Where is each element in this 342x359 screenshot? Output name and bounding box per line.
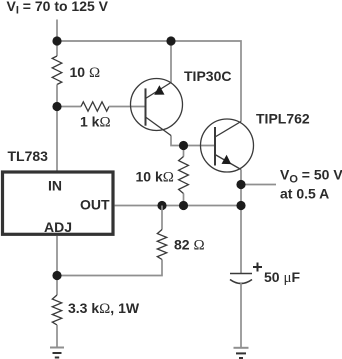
svg-text:TIP30C: TIP30C: [184, 68, 231, 84]
wire OUT rail: [115, 205, 242, 207]
label + polarity: [253, 263, 262, 272]
node dot ADJ junction: [52, 271, 61, 280]
capacitor C1 top plate: [230, 273, 252, 275]
wire 10k top lead: [183, 146, 185, 157]
node dot Q2 base junction: [179, 141, 188, 150]
svg-text:at 0.5 A: at 0.5 A: [280, 186, 329, 202]
node dot Q1 emitter rail junction: [166, 36, 175, 45]
transistor Q1 TIP30C: [131, 79, 183, 136]
wire ADJ pin down: [56, 236, 58, 295]
transistor Q2 TIPL762: [201, 119, 254, 172]
svg-text:TL783: TL783: [8, 148, 49, 164]
wire base branch left: [57, 106, 81, 108]
node dot 1k tap: [52, 102, 61, 111]
svg-text:10 kΩ: 10 kΩ: [136, 169, 174, 186]
ground right: [234, 348, 249, 358]
node dot input-rail junction: [52, 36, 61, 45]
wire Q1 emitter to rail: [170, 41, 172, 83]
svg-text:50 μF: 50 μF: [264, 269, 301, 286]
node dot output tap: [236, 180, 245, 189]
svg-text:3.3 kΩ, 1W: 3.3 kΩ, 1W: [68, 300, 140, 317]
wire output tap: [241, 184, 276, 186]
TL783 regulator U1: [3, 172, 114, 234]
wire input column to IN pin: [56, 85, 58, 173]
ground left: [50, 348, 64, 358]
resistor 82 ohm: [157, 230, 166, 260]
wire top rail to TIPL762 collector: [57, 41, 241, 122]
wire Q2 emitter down to capacitor: [240, 170, 242, 274]
wire base lead to Q1: [109, 106, 146, 108]
svg-text:IN: IN: [48, 178, 62, 194]
node dot OUT-emitter junction: [236, 201, 245, 210]
resistor 10 kohm: [179, 157, 189, 194]
wire 82ohm bottom to ADJ node: [57, 260, 162, 276]
svg-text:10 Ω: 10 Ω: [70, 64, 101, 81]
svg-text:1 kΩ: 1 kΩ: [80, 114, 111, 131]
svg-text:OUT: OUT: [80, 197, 110, 213]
node dot 82ohm tap: [157, 201, 166, 210]
wire Q1 collector to Q2 base: [171, 136, 215, 146]
resistor 10 ohm: [52, 56, 62, 85]
resistor 1 kohm: [81, 102, 109, 111]
resistor 3.3 kohm 1W: [52, 295, 61, 325]
wire input stub: [56, 20, 58, 42]
svg-text:82 Ω: 82 Ω: [174, 237, 205, 254]
wire capacitor to ground: [240, 283, 242, 348]
node dot 10k bottom junction: [179, 201, 188, 210]
wire input column upper: [56, 41, 58, 56]
svg-text:TIPL762: TIPL762: [256, 111, 310, 127]
capacitor C1 bottom plate: [230, 280, 252, 284]
wire 82ohm top lead: [161, 206, 163, 230]
wire 10k bottom lead: [183, 194, 185, 206]
wire 3.3k bottom to ground: [56, 325, 58, 348]
svg-text:ADJ: ADJ: [44, 219, 72, 235]
